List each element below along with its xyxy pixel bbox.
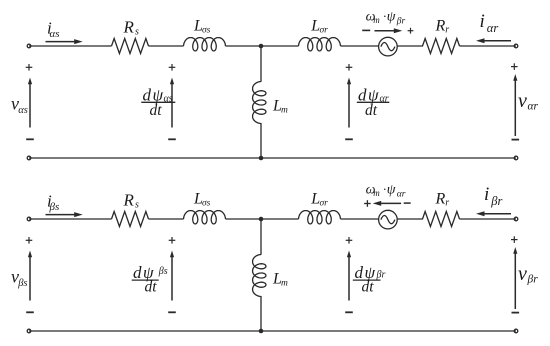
svg-text:αr: αr [397, 189, 406, 199]
svg-text:αs: αs [18, 105, 28, 116]
svg-text:βr: βr [376, 270, 386, 281]
svg-text:dt: dt [150, 102, 163, 119]
svg-text:βr: βr [527, 273, 539, 285]
svg-text:s: s [135, 27, 139, 38]
svg-text:dt: dt [145, 278, 158, 295]
svg-text:αs: αs [50, 28, 60, 40]
svg-text:σs: σs [202, 198, 211, 208]
svg-text:βr: βr [396, 16, 406, 26]
svg-text:αr: αr [380, 93, 389, 104]
svg-text:R: R [435, 191, 446, 208]
svg-text:ψ: ψ [387, 10, 396, 25]
svg-text:αr: αr [528, 100, 539, 112]
svg-text:i: i [480, 11, 485, 32]
svg-text:·: · [383, 182, 386, 197]
svg-text:σr: σr [320, 25, 329, 35]
svg-text:αs: αs [164, 93, 173, 104]
svg-text:R: R [435, 18, 446, 35]
svg-text:βr: βr [490, 194, 502, 208]
svg-text:s: s [135, 200, 139, 211]
svg-text:βs: βs [17, 278, 27, 289]
svg-text:m: m [281, 105, 288, 115]
svg-text:σs: σs [202, 25, 211, 35]
svg-text:ψ: ψ [387, 183, 396, 198]
svg-text:v: v [518, 263, 527, 285]
svg-text:αr: αr [487, 21, 499, 35]
svg-text:·: · [383, 9, 386, 24]
svg-text:σr: σr [320, 198, 329, 208]
svg-text:r: r [445, 198, 449, 209]
svg-text:m: m [281, 278, 288, 288]
svg-text:v: v [518, 90, 527, 112]
svg-text:R: R [123, 191, 135, 210]
svg-text:R: R [123, 18, 135, 37]
svg-text:βs: βs [49, 201, 60, 213]
svg-text:dt: dt [362, 278, 375, 295]
svg-text:r: r [445, 25, 449, 36]
svg-text:i: i [484, 184, 489, 205]
svg-text:m: m [373, 15, 380, 25]
svg-text:βs: βs [158, 266, 168, 277]
svg-text:m: m [373, 188, 380, 198]
svg-text:dt: dt [365, 102, 378, 119]
